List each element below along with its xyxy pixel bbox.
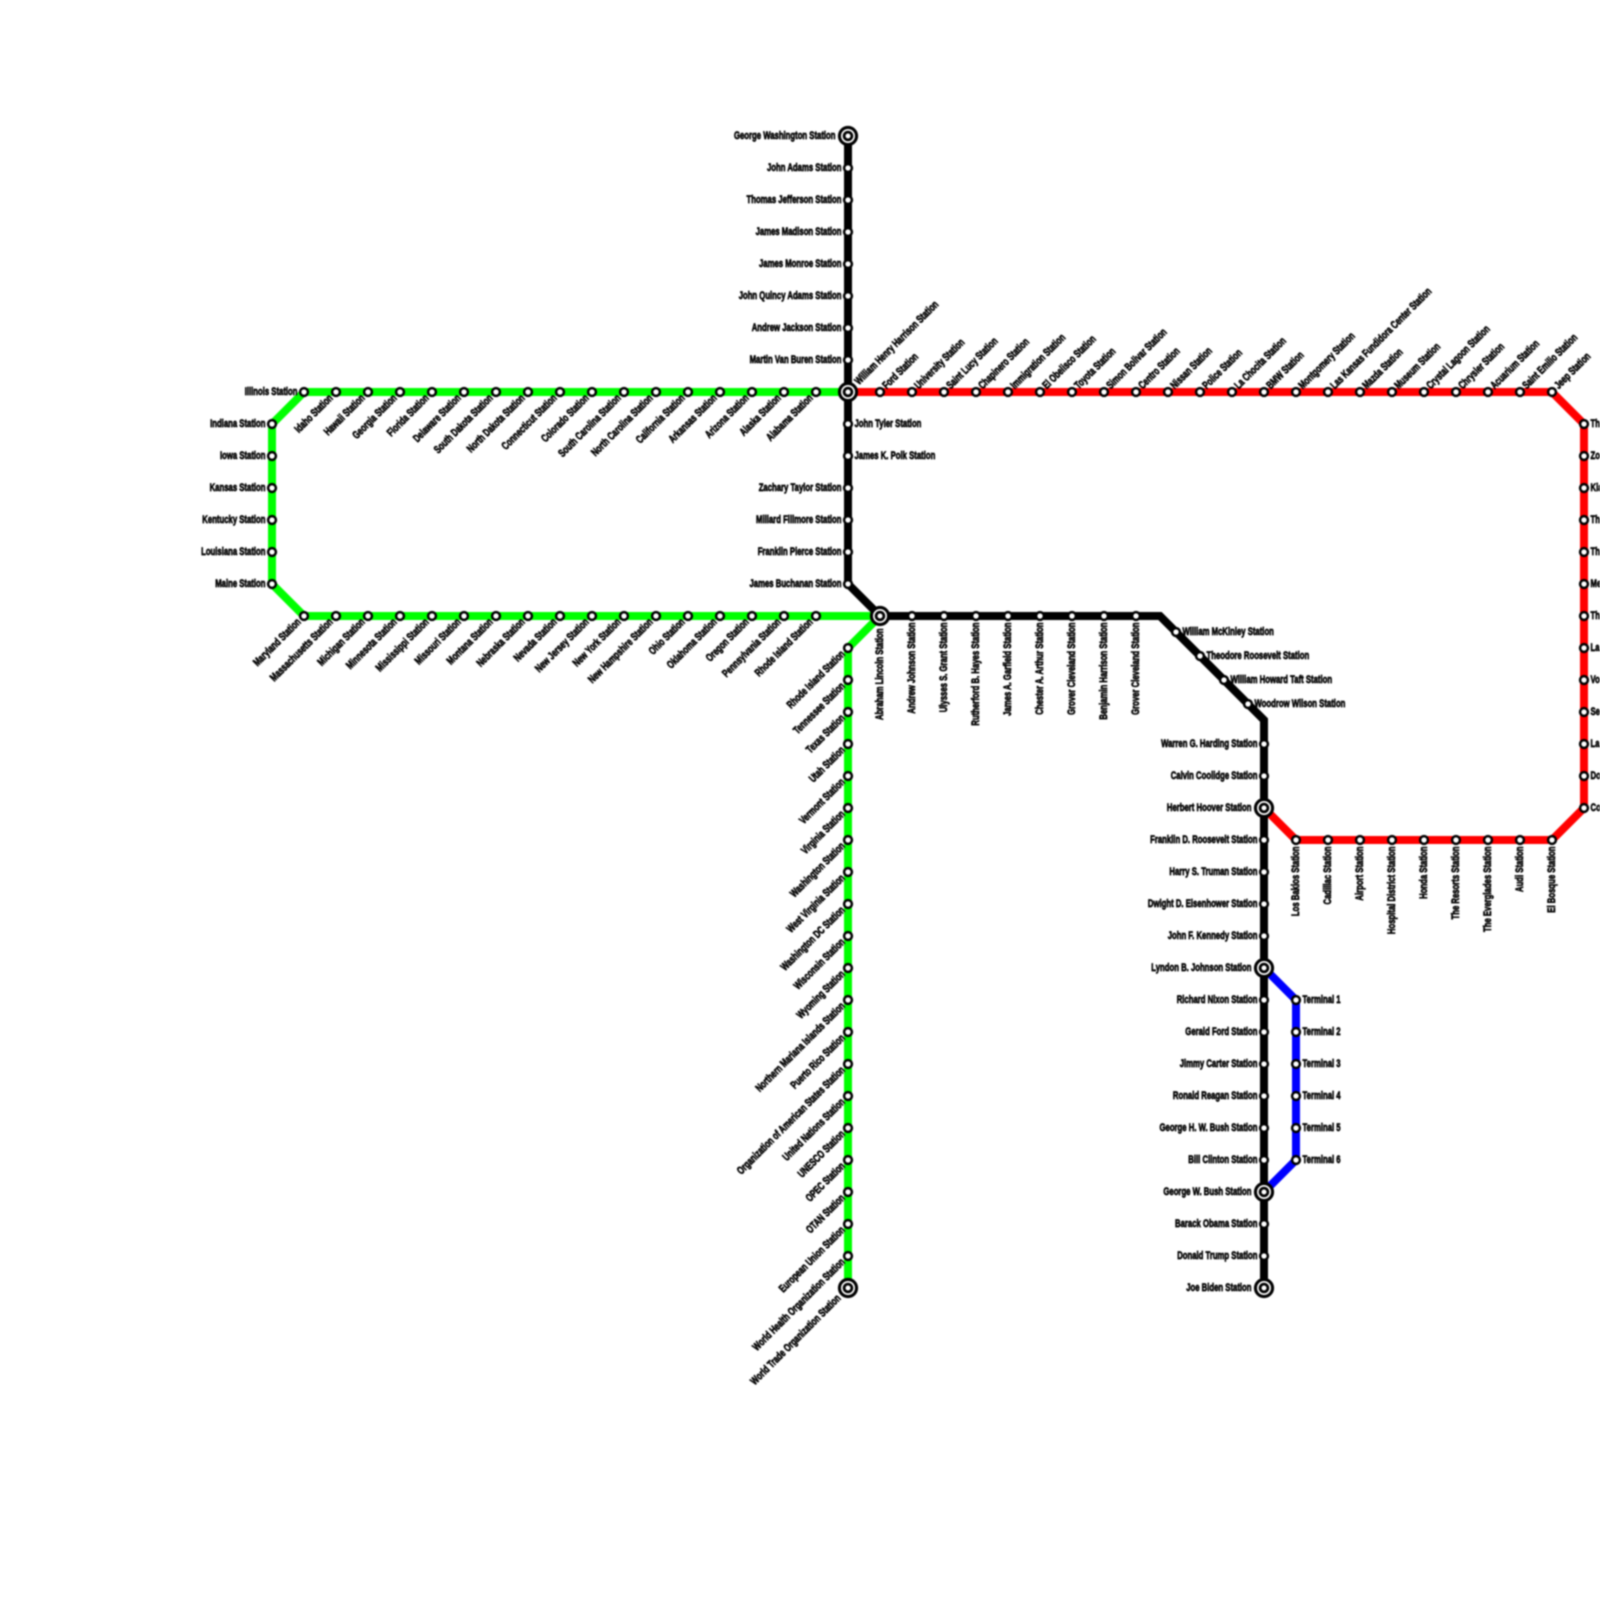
- green line: [272, 392, 880, 1288]
- station West Virginia Station: [785, 868, 852, 935]
- station Rutherford B. Hayes Station: [970, 612, 982, 726]
- svg-text:Gerald Ford Station: Gerald Ford Station: [1185, 1026, 1257, 1038]
- svg-text:West Virginia Station: West Virginia Station: [785, 872, 848, 935]
- station Maryland Station: [251, 612, 308, 669]
- station Terminal 1: [1292, 994, 1341, 1006]
- station California Station: [634, 388, 692, 446]
- station Washington Station: [788, 836, 852, 900]
- black line: [848, 136, 1264, 1288]
- svg-text:Dodge Station: Dodge Station: [1591, 770, 1600, 782]
- station La Playa Station: [1580, 738, 1600, 750]
- svg-text:Herbert Hoover Station: Herbert Hoover Station: [1167, 802, 1252, 814]
- svg-text:Theodore Roosevelt Station: Theodore Roosevelt Station: [1207, 650, 1310, 662]
- station El Obelisco Station: [1036, 333, 1099, 396]
- station New York Station: [571, 612, 628, 669]
- station United Nations Station: [781, 1092, 852, 1163]
- station Ford Station: [876, 351, 921, 396]
- svg-text:Abraham Lincoln Station: Abraham Lincoln Station: [874, 628, 886, 720]
- station Nevada Station: [512, 612, 564, 664]
- station Colorado Station: [539, 388, 596, 445]
- station Tennessee Station: [791, 676, 852, 737]
- station The Resorts Station: [1450, 836, 1462, 919]
- station Arkansas Station: [666, 388, 723, 445]
- station William Howard Taft Station: [1220, 674, 1332, 686]
- station Colinas Station: [1580, 802, 1600, 814]
- station Terminal 3: [1292, 1058, 1341, 1070]
- station James Buchanan Station: [750, 578, 852, 590]
- svg-text:George W. Bush Station: George W. Bush Station: [1163, 1186, 1251, 1198]
- svg-text:The Valley Station: The Valley Station: [1591, 514, 1600, 526]
- station Benjamin Harrison Station: [1098, 612, 1110, 720]
- svg-text:James Monroe Station: James Monroe Station: [759, 258, 842, 270]
- station Airport Station: [1354, 836, 1366, 901]
- station New Jersey Station: [533, 612, 596, 675]
- station Organization of American States Station: [735, 1060, 852, 1177]
- svg-text:Bill Clinton Station: Bill Clinton Station: [1188, 1154, 1257, 1166]
- station Centro Station: [1132, 345, 1183, 396]
- svg-text:North Dakota Station: North Dakota Station: [465, 392, 528, 455]
- svg-text:Terminal 4: Terminal 4: [1303, 1090, 1342, 1102]
- station Wyoming Station: [795, 964, 852, 1021]
- svg-text:The Everglades Station: The Everglades Station: [1482, 846, 1494, 932]
- svg-text:The Lakes Station: The Lakes Station: [1591, 546, 1600, 558]
- svg-text:James Buchanan Station: James Buchanan Station: [750, 578, 842, 590]
- station OPEC Station: [804, 1156, 852, 1204]
- svg-text:John Adams Station: John Adams Station: [767, 162, 842, 174]
- station Thomas Jefferson Station: [747, 194, 852, 206]
- svg-text:Louisiana Station: Louisiana Station: [201, 546, 266, 558]
- svg-text:George H. W. Bush Station: George H. W. Bush Station: [1160, 1122, 1258, 1134]
- station Andrew Johnson Station: [906, 612, 918, 714]
- station Nebraska Station: [474, 612, 531, 669]
- svg-text:Honda Station: Honda Station: [1418, 846, 1430, 899]
- station Alaska Station: [737, 388, 787, 438]
- red line: [848, 392, 1584, 840]
- station William Henry Harrison Station: [839, 299, 941, 401]
- station El Bosque Station: [1546, 836, 1558, 913]
- station Volvo Station: [1580, 674, 1600, 686]
- svg-text:Colinas Station: Colinas Station: [1591, 802, 1600, 814]
- svg-text:Rutherford B. Hayes Station: Rutherford B. Hayes Station: [970, 622, 982, 725]
- svg-text:Saint Emilio Station: Saint Emilio Station: [1520, 332, 1580, 392]
- station Rhode Island Station: [785, 644, 852, 711]
- station Connecticut Station: [500, 388, 564, 452]
- svg-text:Harry S. Truman Station: Harry S. Truman Station: [1169, 866, 1257, 878]
- station The Valley Station: [1580, 514, 1600, 526]
- svg-text:Rhode Island Station: Rhode Island Station: [785, 648, 848, 711]
- station Saint Lucy Station: [940, 335, 1001, 396]
- station Bill Clinton Station: [1188, 1154, 1268, 1166]
- svg-text:Immigration Station: Immigration Station: [1008, 332, 1068, 392]
- svg-text:Ronald Reagan Station: Ronald Reagan Station: [1173, 1090, 1258, 1102]
- station Idaho Station: [293, 388, 340, 435]
- svg-text:Maine Station: Maine Station: [215, 578, 265, 590]
- station Oklahoma Station: [665, 612, 724, 671]
- station James Madison Station: [756, 226, 852, 238]
- station Iowa Station: [220, 450, 276, 462]
- station Herbert Hoover Station: [1167, 799, 1273, 816]
- svg-text:Hospital District Station: Hospital District Station: [1386, 846, 1398, 934]
- station Kentucky Station: [202, 514, 276, 526]
- station Alabama Station: [764, 388, 820, 444]
- station North Dakota Station: [465, 388, 532, 455]
- station European Union Station: [777, 1220, 852, 1295]
- svg-text:Kia Station: Kia Station: [1591, 482, 1600, 494]
- station Ulysses S. Grant Station: [938, 612, 950, 712]
- svg-text:Thomas Jefferson Station: Thomas Jefferson Station: [747, 194, 842, 206]
- station Calvin Coolidge Station: [1171, 770, 1268, 782]
- station Franklin D. Roosevelt Station: [1150, 834, 1268, 846]
- svg-text:Dwight D. Eisenhower Station: Dwight D. Eisenhower Station: [1148, 898, 1258, 910]
- svg-text:Ulysses S. Grant Station: Ulysses S. Grant Station: [938, 622, 950, 712]
- station Jimmy Carter Station: [1180, 1058, 1268, 1070]
- station Michigan Station: [315, 612, 372, 669]
- station University Station: [908, 337, 967, 396]
- station Hospital District Station: [1386, 836, 1398, 934]
- station Honda Station: [1418, 836, 1430, 899]
- station UNESCO Station: [796, 1124, 852, 1180]
- station Abraham Lincoln Station: [871, 607, 888, 720]
- svg-text:Cadillac Station: Cadillac Station: [1322, 846, 1334, 904]
- svg-text:Franklin Pierce Station: Franklin Pierce Station: [758, 546, 842, 558]
- station Mazda Station: [1356, 346, 1406, 396]
- station Audi Station: [1514, 836, 1526, 892]
- station Las Kansas Fundidora Center Station: [1324, 286, 1434, 396]
- station Gerald Ford Station: [1185, 1026, 1268, 1038]
- station Immigration Station: [1004, 332, 1068, 396]
- station Terminal 4: [1292, 1090, 1341, 1102]
- svg-text:Connecticut Station: Connecticut Station: [500, 392, 560, 452]
- station Warren G. Harding Station: [1161, 738, 1268, 750]
- station George H. W. Bush Station: [1160, 1122, 1268, 1134]
- station Zoologico Station: [1580, 450, 1600, 462]
- station Wisconsin Station: [792, 932, 852, 992]
- svg-text:Martin Van Buren Station: Martin Van Buren Station: [750, 354, 842, 366]
- station La Chocita Station: [1228, 335, 1289, 396]
- station Pennsylvania Station: [720, 612, 788, 680]
- station Zachary Taylor Station: [759, 482, 852, 494]
- station John Quincy Adams Station: [739, 290, 852, 302]
- station George Washington Station: [734, 127, 857, 144]
- svg-text:Warren G. Harding Station: Warren G. Harding Station: [1161, 738, 1258, 750]
- station Minnesota Station: [344, 612, 404, 672]
- station Mississippi Station: [374, 612, 436, 674]
- station Lyndon B. Johnson Station: [1151, 959, 1272, 976]
- svg-text:William Howard Taft Station: William Howard Taft Station: [1231, 674, 1333, 686]
- station North Carolina Station: [589, 388, 660, 459]
- svg-text:Chester A. Arthur Station: Chester A. Arthur Station: [1034, 622, 1046, 714]
- station Georgia Station: [350, 388, 403, 441]
- svg-text:Donald Trump Station: Donald Trump Station: [1177, 1250, 1257, 1262]
- svg-text:Audi Station: Audi Station: [1514, 846, 1526, 892]
- svg-text:El Bosque Station: El Bosque Station: [1546, 846, 1558, 912]
- station La Rambla Station: [1580, 642, 1600, 654]
- svg-text:Kentucky Station: Kentucky Station: [202, 514, 265, 526]
- station Texas Station: [804, 708, 852, 756]
- svg-text:Indiana Station: Indiana Station: [210, 418, 266, 430]
- station Hawaii Station: [322, 388, 372, 438]
- station World Health Organization Station: [751, 1252, 852, 1353]
- station John Adams Station: [767, 162, 852, 174]
- station Dwight D. Eisenhower Station: [1148, 898, 1268, 910]
- station Martin Van Buren Station: [750, 354, 852, 366]
- station Museum Station: [1388, 341, 1443, 396]
- svg-text:Zachary Taylor Station: Zachary Taylor Station: [759, 482, 842, 494]
- station Andrew Jackson Station: [752, 322, 852, 334]
- svg-text:James Madison Station: James Madison Station: [756, 226, 842, 238]
- svg-text:Montgomery Station: Montgomery Station: [1296, 330, 1357, 391]
- station Nissan Station: [1164, 345, 1215, 396]
- svg-text:Iowa Station: Iowa Station: [220, 450, 266, 462]
- svg-text:Terminal 3: Terminal 3: [1303, 1058, 1341, 1070]
- station Ronald Reagan Station: [1173, 1090, 1268, 1102]
- station Terminal 6: [1292, 1154, 1341, 1166]
- station Utah Station: [807, 740, 852, 785]
- station Washington DC Station: [779, 900, 852, 973]
- station Louisiana Station: [201, 546, 276, 558]
- station Kansas Station: [210, 482, 276, 494]
- station Puerto Rico Station: [788, 1028, 851, 1091]
- svg-text:Terminal 2: Terminal 2: [1303, 1026, 1341, 1038]
- svg-text:Seat Station: Seat Station: [1591, 706, 1600, 718]
- station Millard Fillmore Station: [756, 514, 852, 526]
- station George W. Bush Station: [1163, 1183, 1272, 1200]
- station Richard Nixon Station: [1177, 994, 1268, 1006]
- blue line: [1264, 968, 1296, 1192]
- station Northern Mariana Islands Station: [753, 996, 851, 1094]
- station Saint Emilio Station: [1516, 332, 1580, 396]
- station Harry S. Truman Station: [1169, 866, 1268, 878]
- station Chapinero Station: [972, 336, 1032, 396]
- svg-text:Barack Obama Station: Barack Obama Station: [1175, 1218, 1258, 1230]
- station Maine Station: [215, 578, 276, 590]
- station Acuarium Station: [1484, 338, 1542, 396]
- station Illinois Station: [245, 386, 308, 398]
- station Chrysler Station: [1452, 341, 1507, 396]
- station The Everglades Station: [1482, 836, 1494, 932]
- station Donald Trump Station: [1177, 1250, 1268, 1262]
- station James Monroe Station: [759, 258, 852, 270]
- svg-text:Terminal 1: Terminal 1: [1303, 994, 1341, 1006]
- station Montana Station: [445, 612, 500, 667]
- station Police Station: [1196, 347, 1245, 396]
- station Theodore Roosevelt Station: [1196, 650, 1309, 662]
- station Grover Cleveland Station: [1066, 612, 1078, 715]
- station John Tyler Station: [844, 418, 921, 430]
- station Crystal Lagoon Station: [1420, 323, 1493, 396]
- station Joe Biden Station: [1186, 1279, 1272, 1296]
- svg-text:Washington Station: Washington Station: [788, 840, 848, 900]
- station Toyota Station: [1068, 345, 1118, 395]
- svg-text:Andrew Johnson Station: Andrew Johnson Station: [906, 622, 918, 713]
- svg-text:Franklin D. Roosevelt Station: Franklin D. Roosevelt Station: [1150, 834, 1258, 846]
- svg-text:Grover Cleveland Station: Grover Cleveland Station: [1130, 622, 1142, 715]
- station Vermont Station: [797, 772, 852, 827]
- station Mercedes Station: [1580, 578, 1600, 590]
- svg-text:Benjamin Harrison Station: Benjamin Harrison Station: [1098, 622, 1110, 719]
- station Oregon Station: [704, 612, 756, 664]
- svg-text:La Rambla Station: La Rambla Station: [1591, 642, 1600, 654]
- svg-text:James K. Polk Station: James K. Polk Station: [855, 450, 936, 462]
- svg-text:John Quincy Adams Station: John Quincy Adams Station: [739, 290, 842, 302]
- station Indiana Station: [210, 418, 276, 430]
- station Seat Station: [1580, 706, 1600, 718]
- station Woodrow Wilson Station: [1244, 698, 1345, 710]
- station Kia Station: [1580, 482, 1600, 494]
- svg-text:Mercedes Station: Mercedes Station: [1591, 578, 1600, 590]
- station BMW Station: [1260, 349, 1307, 396]
- svg-text:Calvin Coolidge Station: Calvin Coolidge Station: [1171, 770, 1258, 782]
- station Virginia Station: [799, 804, 852, 857]
- svg-text:Kansas Station: Kansas Station: [210, 482, 266, 494]
- svg-text:Volvo Station: Volvo Station: [1591, 674, 1600, 686]
- station James K. Polk Station: [844, 450, 935, 462]
- station Terminal 2: [1292, 1026, 1341, 1038]
- svg-text:William McKinley Station: William McKinley Station: [1183, 626, 1275, 638]
- svg-text:Lyndon B. Johnson Station: Lyndon B. Johnson Station: [1151, 962, 1251, 974]
- svg-text:Los Bakios Station: Los Bakios Station: [1290, 846, 1302, 916]
- svg-text:Grover Cleveland Station: Grover Cleveland Station: [1066, 622, 1078, 715]
- svg-text:John Tyler Station: John Tyler Station: [855, 418, 922, 430]
- station Arizona Station: [703, 388, 756, 441]
- station John F. Kennedy Station: [1168, 930, 1268, 942]
- station South Dakota Station: [432, 388, 500, 456]
- station Rhode Island Station: [753, 612, 820, 679]
- svg-text:Woodrow Wilson Station: Woodrow Wilson Station: [1255, 698, 1346, 710]
- svg-text:Richard Nixon Station: Richard Nixon Station: [1177, 994, 1258, 1006]
- station The Lakes Station: [1580, 546, 1600, 558]
- svg-text:George Washington Station: George Washington Station: [734, 130, 836, 142]
- svg-text:Zoologico Station: Zoologico Station: [1591, 450, 1600, 462]
- station Delaware Station: [411, 388, 468, 445]
- station Montgomery Station: [1292, 330, 1358, 396]
- svg-text:Terminal 6: Terminal 6: [1303, 1154, 1341, 1166]
- station Cadillac Station: [1322, 836, 1334, 904]
- station Florida Station: [385, 388, 436, 439]
- svg-text:John F. Kennedy Station: John F. Kennedy Station: [1168, 930, 1258, 942]
- station The Beach Station: [1580, 610, 1600, 622]
- station New Hampshire Station: [586, 612, 660, 686]
- station James A. Garfield Station: [1002, 612, 1014, 716]
- station William McKinley Station: [1172, 626, 1274, 638]
- station OTAN Station: [804, 1188, 852, 1236]
- svg-text:James A. Garfield Station: James A. Garfield Station: [1002, 622, 1014, 716]
- svg-text:Illinois Station: Illinois Station: [245, 386, 298, 398]
- svg-text:Millard Fillmore Station: Millard Fillmore Station: [756, 514, 842, 526]
- station Grover Cleveland Station: [1130, 612, 1142, 715]
- station The Palms Station: [1580, 418, 1600, 430]
- svg-text:Joe Biden Station: Joe Biden Station: [1186, 1282, 1251, 1294]
- svg-text:La Playa Station: La Playa Station: [1591, 738, 1600, 750]
- station Franklin Pierce Station: [758, 546, 852, 558]
- svg-text:Terminal 5: Terminal 5: [1303, 1122, 1341, 1134]
- station Missouri Station: [413, 612, 468, 667]
- station Simon Bolivar Station: [1100, 326, 1170, 396]
- station Dodge Station: [1580, 770, 1600, 782]
- svg-text:The Palms Station: The Palms Station: [1591, 418, 1600, 430]
- station Terminal 5: [1292, 1122, 1341, 1134]
- station Los Bakios Station: [1290, 836, 1302, 916]
- station Chester A. Arthur Station: [1034, 612, 1046, 715]
- svg-text:Rhode Island Station: Rhode Island Station: [753, 616, 816, 679]
- station World Trade Organization Station: [748, 1279, 856, 1387]
- svg-text:The Resorts Station: The Resorts Station: [1450, 846, 1462, 919]
- svg-text:Andrew Jackson Station: Andrew Jackson Station: [752, 322, 842, 334]
- svg-text:Airport Station: Airport Station: [1354, 846, 1366, 900]
- svg-text:The Beach Station: The Beach Station: [1591, 610, 1600, 622]
- station Massachusetts Station: [268, 612, 340, 684]
- station South Carolina Station: [556, 388, 628, 460]
- station Jeep Station: [1548, 350, 1593, 395]
- station Ohio Station: [647, 612, 692, 657]
- station Barack Obama Station: [1175, 1218, 1268, 1230]
- svg-text:Jimmy Carter Station: Jimmy Carter Station: [1180, 1058, 1258, 1070]
